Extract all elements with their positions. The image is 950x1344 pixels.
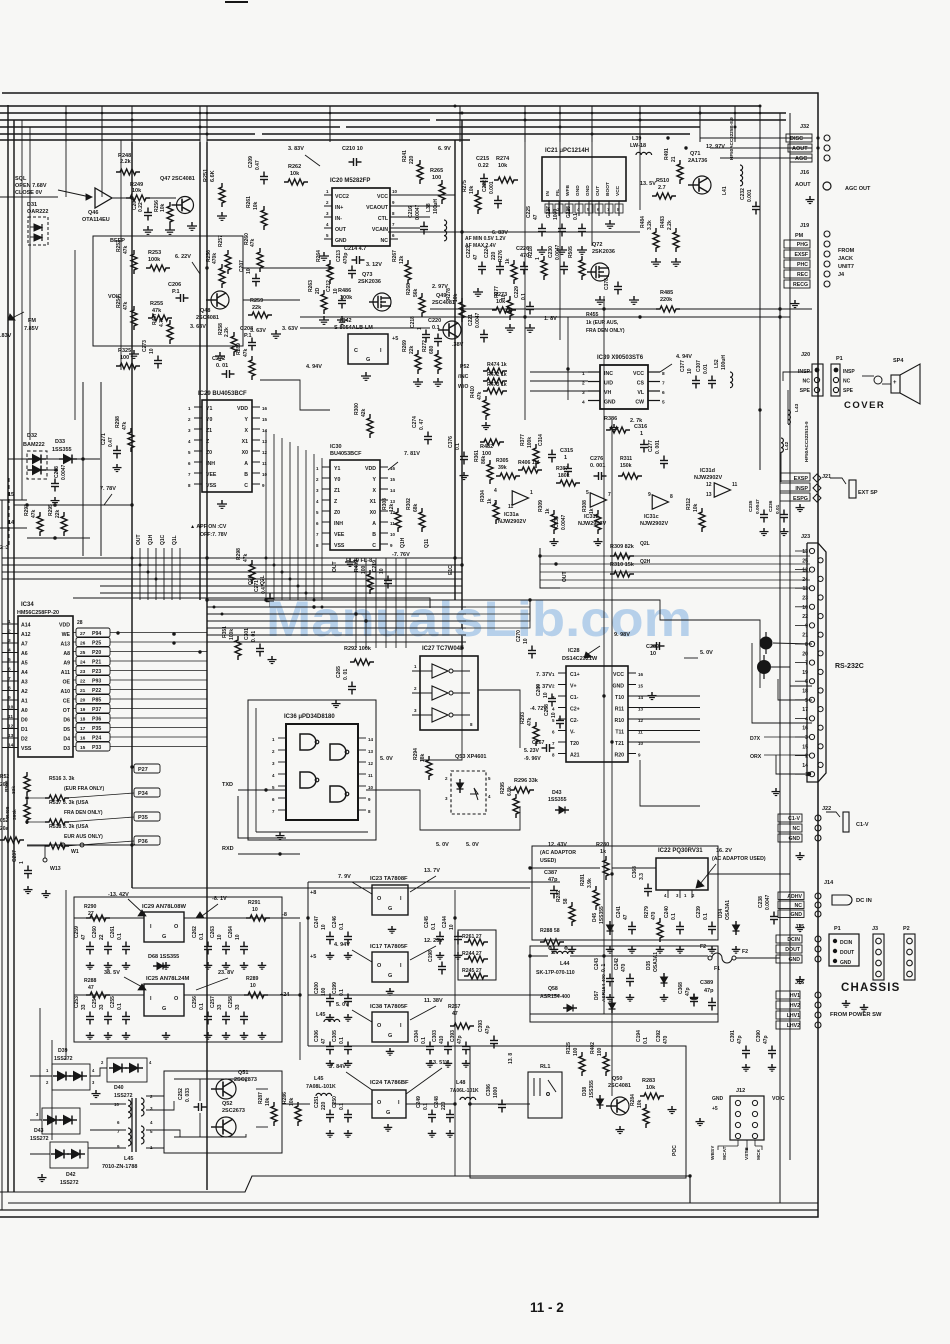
svg-text:L43: L43	[794, 403, 800, 412]
svg-text:220: 220	[491, 251, 497, 260]
ground gnd-c204	[147, 226, 149, 230]
svg-text:R265: R265	[430, 168, 443, 174]
svg-text:C209: C209	[248, 156, 254, 168]
svg-text:9. 98V: 9. 98V	[614, 632, 630, 638]
svg-text:A12: A12	[21, 632, 31, 638]
svg-text:Q52: Q52	[222, 1101, 232, 1107]
svg-text:R274: R274	[496, 156, 510, 162]
svg-text:C215: C215	[476, 156, 489, 162]
node EXT SP jack	[849, 480, 856, 498]
svg-text:Y0: Y0	[334, 477, 340, 483]
svg-text:470: 470	[651, 911, 657, 920]
resistor R261b	[458, 930, 496, 980]
svg-text:CW: CW	[635, 400, 644, 406]
svg-text:Q71: Q71	[690, 151, 700, 157]
svg-text:L45: L45	[316, 1012, 325, 1018]
svg-text:7010-ZN-1788: 7010-ZN-1788	[102, 1164, 137, 1170]
svg-text:Q1H: Q1H	[148, 534, 154, 545]
svg-text:10k: 10k	[498, 163, 508, 169]
svg-text:Q73: Q73	[362, 272, 372, 278]
svg-text:7. 84V: 7. 84V	[330, 1064, 346, 1070]
wire misc2	[299, 922, 301, 1060]
svg-text:9: 9	[8, 695, 11, 701]
svg-text:10: 10	[333, 288, 339, 294]
svg-text:13: 13	[262, 439, 268, 444]
svg-text:POC: POC	[672, 1145, 678, 1156]
svg-text:P36: P36	[138, 839, 148, 845]
svg-text:47k: 47k	[31, 509, 37, 518]
svg-text:BAM222: BAM222	[23, 442, 45, 448]
svg-text:16: 16	[80, 736, 86, 742]
svg-text:HF50ACC3225B-8.9: HF50ACC3225B-8.9	[729, 117, 734, 160]
svg-text:LW-18: LW-18	[630, 143, 646, 149]
svg-text:220k: 220k	[660, 297, 673, 303]
svg-text:J4: J4	[838, 272, 845, 278]
svg-text:C229: C229	[514, 286, 520, 298]
svg-text:Q53 XP4601: Q53 XP4601	[455, 754, 487, 760]
svg-text:NJW2902V: NJW2902V	[640, 521, 668, 527]
svg-text:47p: 47p	[457, 1035, 463, 1044]
svg-text:1SS272: 1SS272	[54, 1056, 73, 1062]
svg-text:R272: R272	[422, 340, 428, 352]
ground gnd-d42	[41, 1174, 43, 1178]
svg-text:X1: X1	[370, 499, 376, 505]
svg-text:0.1: 0.1	[643, 1037, 649, 1044]
svg-text:(AC ADAPTOR: (AC ADAPTOR	[540, 850, 576, 856]
svg-text:Y1: Y1	[334, 466, 340, 472]
svg-text:NJW2902V: NJW2902V	[498, 519, 526, 525]
svg-text:R485: R485	[660, 290, 673, 296]
wire mark top center	[225, 1, 248, 3]
wire ic34 top loop	[73, 598, 430, 608]
wire reg frame right	[307, 882, 309, 1046]
svg-text:R276: R276	[498, 250, 504, 262]
wire mid vertical pair2	[591, 142, 593, 246]
svg-text:A9: A9	[63, 661, 70, 667]
svg-text:21: 21	[671, 156, 677, 162]
svg-text:10k: 10k	[469, 185, 475, 194]
svg-text:FROM: FROM	[838, 248, 855, 254]
node P27b	[134, 764, 160, 773]
svg-text:C240: C240	[664, 906, 670, 918]
svg-text:1: 1	[582, 371, 585, 377]
svg-text:47: 47	[473, 254, 479, 260]
svg-text:R294: R294	[413, 748, 419, 760]
svg-text:VCC: VCC	[633, 371, 644, 377]
svg-text:Z0: Z0	[206, 450, 212, 456]
svg-text:R269: R269	[402, 340, 408, 352]
ground gnd-q50	[619, 1126, 621, 1130]
svg-text:Q58: Q58	[548, 986, 558, 992]
svg-text:F1: F1	[714, 966, 720, 972]
svg-text:OUT: OUT	[332, 561, 338, 572]
svg-text:C: C	[372, 543, 376, 549]
svg-text:2□3: 2□3	[0, 545, 9, 551]
wire bundle vertical IC30 down	[355, 558, 357, 648]
svg-text:VDD: VDD	[59, 623, 70, 629]
svg-text:C198: C198	[428, 950, 434, 962]
svg-text:220: 220	[441, 1101, 447, 1110]
ground gnd-ic17	[329, 1014, 331, 1017]
svg-text:15: 15	[802, 744, 808, 750]
svg-text:0.22: 0.22	[478, 163, 489, 169]
wire misc1	[65, 890, 67, 1060]
ground gnd-d32	[54, 497, 56, 501]
svg-text:VL: VL	[637, 390, 644, 396]
svg-text:Q2H: Q2H	[248, 574, 254, 585]
svg-text:2SC4081: 2SC4081	[196, 315, 219, 321]
svg-text:P33: P33	[92, 745, 101, 751]
svg-text:22: 22	[802, 614, 808, 620]
svg-text:1: 1	[530, 490, 533, 496]
svg-text:C: C	[354, 348, 358, 354]
svg-text:C244: C244	[442, 916, 448, 928]
wire ic36 frame	[248, 700, 376, 840]
svg-text:Q48: Q48	[200, 308, 210, 314]
svg-text:C259: C259	[74, 926, 80, 938]
wire txd loop	[238, 796, 286, 838]
svg-text:10k: 10k	[453, 293, 459, 302]
svg-text:A6: A6	[21, 651, 28, 657]
svg-text:IC21 μPC1214H: IC21 μPC1214H	[545, 148, 589, 154]
svg-text:A14: A14	[21, 623, 31, 629]
svg-text:C252: C252	[178, 1088, 184, 1100]
svg-text:22k: 22k	[409, 345, 415, 354]
ground gnd-reg1	[89, 962, 91, 965]
svg-text:R455: R455	[586, 312, 599, 318]
svg-text:C253: C253	[74, 996, 80, 1008]
svg-text:1SS272: 1SS272	[30, 1136, 49, 1142]
svg-text:VCC: VCC	[615, 185, 621, 196]
svg-text:11: 11	[262, 461, 267, 466]
svg-text:REC: REC	[797, 272, 808, 278]
svg-text:3. 12V: 3. 12V	[366, 262, 382, 268]
svg-text:6: 6	[8, 667, 11, 673]
svg-text:23: 23	[80, 669, 86, 675]
svg-text:CLOSE 0V: CLOSE 0V	[15, 190, 43, 196]
svg-text:58: 58	[563, 898, 569, 904]
svg-text:27: 27	[80, 631, 86, 637]
svg-text:L41: L41	[722, 186, 728, 195]
wire misc3	[454, 890, 456, 1176]
svg-text:47: 47	[321, 1038, 327, 1044]
svg-text:FRA DEN ONLY): FRA DEN ONLY)	[586, 328, 625, 334]
svg-text:W13: W13	[50, 866, 61, 872]
svg-text:3: 3	[8, 638, 11, 644]
svg-text:0.1: 0.1	[117, 1003, 123, 1010]
svg-text:LHV2: LHV2	[787, 1023, 800, 1029]
svg-text:16: 16	[638, 672, 644, 677]
svg-text:1k: 1k	[505, 258, 511, 264]
svg-text:OFF:7. 78V: OFF:7. 78V	[200, 532, 228, 538]
svg-text:Q72: Q72	[592, 242, 602, 248]
wire ic20 right feeds	[398, 194, 455, 196]
svg-text:22k: 22k	[252, 305, 262, 311]
svg-text:D45: D45	[592, 913, 598, 922]
svg-text:11 - 2: 11 - 2	[530, 1300, 564, 1315]
svg-text:P.1: P.1	[172, 289, 180, 295]
svg-text:IC31a: IC31a	[504, 512, 520, 518]
svg-text:20a: 20a	[0, 782, 9, 788]
svg-text:2SC2873: 2SC2873	[234, 1077, 257, 1083]
svg-text:IC36 μPD34D8180: IC36 μPD34D8180	[284, 714, 335, 720]
svg-text:R311: R311	[620, 456, 632, 462]
svg-text:10k: 10k	[265, 1097, 271, 1106]
svg-text:P21: P21	[92, 660, 101, 666]
svg-text:18: 18	[802, 689, 808, 695]
svg-text:GND: GND	[612, 684, 624, 690]
svg-text:R287: R287	[258, 1092, 264, 1104]
svg-text:1k: 1k	[487, 498, 493, 504]
svg-text:C1-V: C1-V	[856, 822, 869, 828]
op-amp Q46 OTA114EU	[95, 188, 112, 208]
svg-text:D33: D33	[55, 439, 65, 445]
svg-text:C250: C250	[332, 1096, 338, 1108]
svg-text:LHV1: LHV1	[787, 1013, 800, 1019]
wire loop E	[260, 380, 330, 410]
svg-text:IC22 PQ30RV31: IC22 PQ30RV31	[658, 848, 703, 854]
svg-text:C273: C273	[142, 340, 148, 352]
svg-text:10: 10	[449, 924, 455, 930]
svg-text:C268: C268	[544, 704, 550, 716]
svg-text:0.1: 0.1	[199, 1003, 205, 1010]
svg-text:R278: R278	[446, 288, 452, 300]
svg-text:T21: T21	[615, 741, 624, 747]
svg-text:A21: A21	[570, 753, 580, 759]
ground gnd-c376	[463, 472, 465, 476]
svg-text:R261 27: R261 27	[462, 934, 482, 940]
wire bus line 1	[0, 105, 760, 107]
svg-text:11. 38V: 11. 38V	[424, 998, 443, 1004]
svg-text:10: 10	[321, 924, 327, 930]
svg-text:5. 0V: 5. 0V	[466, 842, 479, 848]
svg-text:IC29 AN78L08W: IC29 AN78L08W	[142, 904, 186, 910]
svg-text:GND: GND	[585, 185, 591, 196]
svg-text:R295: R295	[48, 504, 54, 516]
svg-text:MCAT: MCAT	[722, 1146, 728, 1160]
svg-text:IC29 BU4053BCF: IC29 BU4053BCF	[198, 391, 247, 397]
svg-text:(EUR FRA ONLY): (EUR FRA ONLY)	[64, 786, 105, 792]
svg-text:Q1C: Q1C	[160, 534, 166, 545]
wire loop F	[455, 600, 700, 620]
svg-text:390k: 390k	[12, 809, 18, 820]
svg-text:22: 22	[80, 679, 86, 685]
svg-text:P1: P1	[836, 356, 843, 362]
svg-text:C203: C203	[54, 466, 60, 478]
svg-text:X0: X0	[370, 510, 376, 516]
svg-text:R325: R325	[566, 1042, 572, 1054]
wire reg rail1	[74, 917, 144, 919]
svg-text:C207: C207	[239, 260, 245, 272]
svg-text:OUT: OUT	[136, 534, 142, 545]
wire j23 links	[752, 643, 812, 723]
wire bus line 2	[0, 112, 786, 114]
ground gnd-j19	[794, 300, 796, 304]
svg-text:GND: GND	[840, 960, 852, 966]
svg-text:C265: C265	[336, 666, 342, 678]
svg-text:470k: 470k	[212, 253, 218, 264]
svg-text:SQL: SQL	[15, 176, 27, 182]
ground gnd-j15	[799, 976, 801, 980]
wire harness B	[2, 557, 462, 559]
svg-text:VDD: VDD	[365, 466, 376, 472]
wire r474 to ic33	[530, 371, 588, 373]
svg-text:C254: C254	[92, 996, 98, 1008]
svg-text:47p: 47p	[737, 1035, 743, 1044]
svg-text:100k: 100k	[229, 629, 235, 640]
svg-text:2SK2036: 2SK2036	[358, 279, 381, 285]
svg-text:R255: R255	[150, 301, 163, 307]
ground gnd-opamps	[597, 538, 599, 542]
svg-text:1k: 1k	[545, 508, 551, 514]
svg-text:U/D: U/D	[604, 381, 613, 387]
svg-text:13. 8: 13. 8	[508, 1053, 514, 1064]
svg-text:0.001: 0.001	[489, 181, 495, 194]
svg-text:C1-: C1-	[570, 695, 579, 701]
svg-text:0.01: 0.01	[775, 504, 781, 514]
diode D41 1SS272	[42, 1108, 80, 1134]
svg-text:13. 7V: 13. 7V	[424, 868, 440, 874]
svg-text:VDD: VDD	[237, 406, 248, 412]
gate G1	[300, 734, 316, 750]
svg-text:P93: P93	[92, 679, 101, 685]
svg-text:-7. 76V: -7. 76V	[392, 552, 410, 558]
svg-text:R10: R10	[614, 718, 624, 724]
svg-text:R263: R263	[308, 280, 314, 292]
svg-text:W/O: W/O	[458, 384, 468, 390]
svg-text:R288: R288	[84, 978, 97, 984]
svg-text:Q50: Q50	[612, 1076, 622, 1082]
svg-text:R296 33k: R296 33k	[514, 778, 539, 784]
svg-text:C219: C219	[372, 560, 378, 572]
svg-text:GND: GND	[335, 238, 347, 244]
svg-text:VCC2: VCC2	[335, 194, 349, 200]
svg-text:220: 220	[409, 155, 415, 164]
svg-text:26: 26	[80, 641, 86, 647]
svg-text:C235: C235	[554, 516, 560, 528]
svg-text:OT: OT	[63, 708, 71, 714]
svg-text:D32: D32	[27, 433, 37, 439]
diode D40 1SS272	[107, 1058, 147, 1082]
wire reg rail2	[74, 994, 144, 996]
svg-text:R517 3. 3k (USA: R517 3. 3k (USA	[49, 800, 89, 806]
svg-text:0.1: 0.1	[421, 1037, 427, 1044]
svg-text:C2+: C2+	[570, 707, 580, 713]
svg-text:100k: 100k	[527, 437, 533, 448]
svg-text:8: 8	[8, 686, 11, 692]
svg-text:C220: C220	[428, 318, 441, 324]
wire fl bracket	[540, 548, 560, 588]
wire bus line 5	[0, 133, 255, 135]
ground gnd-ic42	[365, 372, 367, 376]
svg-text:470: 470	[621, 963, 627, 972]
svg-text:O: O	[377, 1100, 382, 1106]
svg-text:47: 47	[623, 914, 629, 920]
svg-text:11: 11	[508, 504, 514, 510]
svg-text:COVER: COVER	[844, 400, 885, 411]
svg-text:D68 1SS355: D68 1SS355	[148, 954, 179, 960]
node C1-V jack	[843, 812, 849, 832]
svg-text:1k: 1k	[600, 849, 607, 855]
svg-text:D1: D1	[21, 727, 28, 733]
svg-text:C274: C274	[412, 416, 418, 428]
svg-text:IC31c: IC31c	[644, 514, 659, 520]
svg-text:DC IN: DC IN	[856, 898, 872, 904]
svg-text:7A08L-101K: 7A08L-101K	[306, 1084, 336, 1090]
svg-text:4: 4	[8, 648, 11, 654]
svg-text:1SS272: 1SS272	[114, 1093, 133, 1099]
svg-text:R309: R309	[538, 500, 544, 512]
svg-text:R305: R305	[496, 458, 509, 464]
svg-text:17: 17	[80, 726, 86, 732]
svg-text:Q49: Q49	[436, 293, 446, 299]
svg-text:ManualsLib.com: ManualsLib.com	[266, 591, 692, 647]
svg-text:47: 47	[81, 934, 87, 940]
svg-text:FROM POWER SW: FROM POWER SW	[830, 1012, 882, 1018]
svg-text:IC25 AN78L24M: IC25 AN78L24M	[146, 976, 189, 982]
svg-text:C239: C239	[696, 906, 702, 918]
svg-text:11: 11	[732, 482, 738, 488]
svg-text:47k: 47k	[122, 421, 128, 430]
svg-text:L38: L38	[426, 203, 432, 212]
svg-text:R298: R298	[115, 416, 121, 428]
svg-text:0. 001: 0. 001	[590, 463, 605, 469]
svg-text:C257: C257	[210, 996, 216, 1008]
svg-text:C2-: C2-	[570, 718, 579, 724]
svg-text:10: 10	[149, 348, 155, 354]
svg-text:2.2k: 2.2k	[224, 327, 230, 337]
ground gnd-q72	[477, 288, 479, 292]
svg-text:33: 33	[235, 1004, 241, 1010]
svg-text:A4: A4	[21, 670, 28, 676]
svg-text:BOOT: BOOT	[605, 182, 611, 196]
svg-text:WE: WE	[62, 632, 71, 638]
wire bundle turn right	[466, 599, 530, 601]
svg-text:8: 8	[805, 642, 808, 648]
wire q73 rail	[300, 327, 430, 329]
svg-text:VCAOUT: VCAOUT	[366, 205, 389, 211]
svg-text:T10: T10	[615, 695, 624, 701]
svg-text:A0: A0	[21, 708, 28, 714]
svg-text:T11: T11	[615, 730, 624, 736]
svg-text:Q46: Q46	[88, 210, 98, 216]
svg-text:X: X	[245, 428, 249, 434]
svg-text:.83V: .83V	[0, 333, 12, 339]
svg-text:R302: R302	[406, 498, 412, 510]
svg-text:20: 20	[80, 698, 86, 704]
svg-text:47k: 47k	[123, 301, 129, 310]
wire rails N	[455, 1175, 690, 1177]
svg-text:R310 15k: R310 15k	[610, 562, 635, 568]
svg-text:D31: D31	[27, 202, 37, 208]
svg-text:S-8054ALB-LM: S-8054ALB-LM	[334, 325, 373, 331]
wire long vertical E	[461, 120, 463, 648]
wire ic24 rail	[282, 1103, 310, 1105]
svg-text:C262: C262	[192, 926, 198, 938]
svg-text:23: 23	[802, 596, 808, 602]
svg-text:J20: J20	[801, 352, 810, 358]
svg-text:19: 19	[80, 707, 86, 713]
svg-text:23. 8V: 23. 8V	[218, 970, 234, 976]
svg-text:R245 27: R245 27	[462, 968, 482, 974]
svg-text:R510: R510	[656, 178, 669, 184]
svg-text:C: C	[244, 483, 248, 489]
svg-text:A13: A13	[60, 642, 70, 648]
svg-text:R472 1k: R472 1k	[487, 372, 507, 378]
svg-text:C222: C222	[482, 180, 488, 192]
wire long vertical B	[199, 142, 201, 600]
svg-text:0.1: 0.1	[521, 293, 527, 300]
